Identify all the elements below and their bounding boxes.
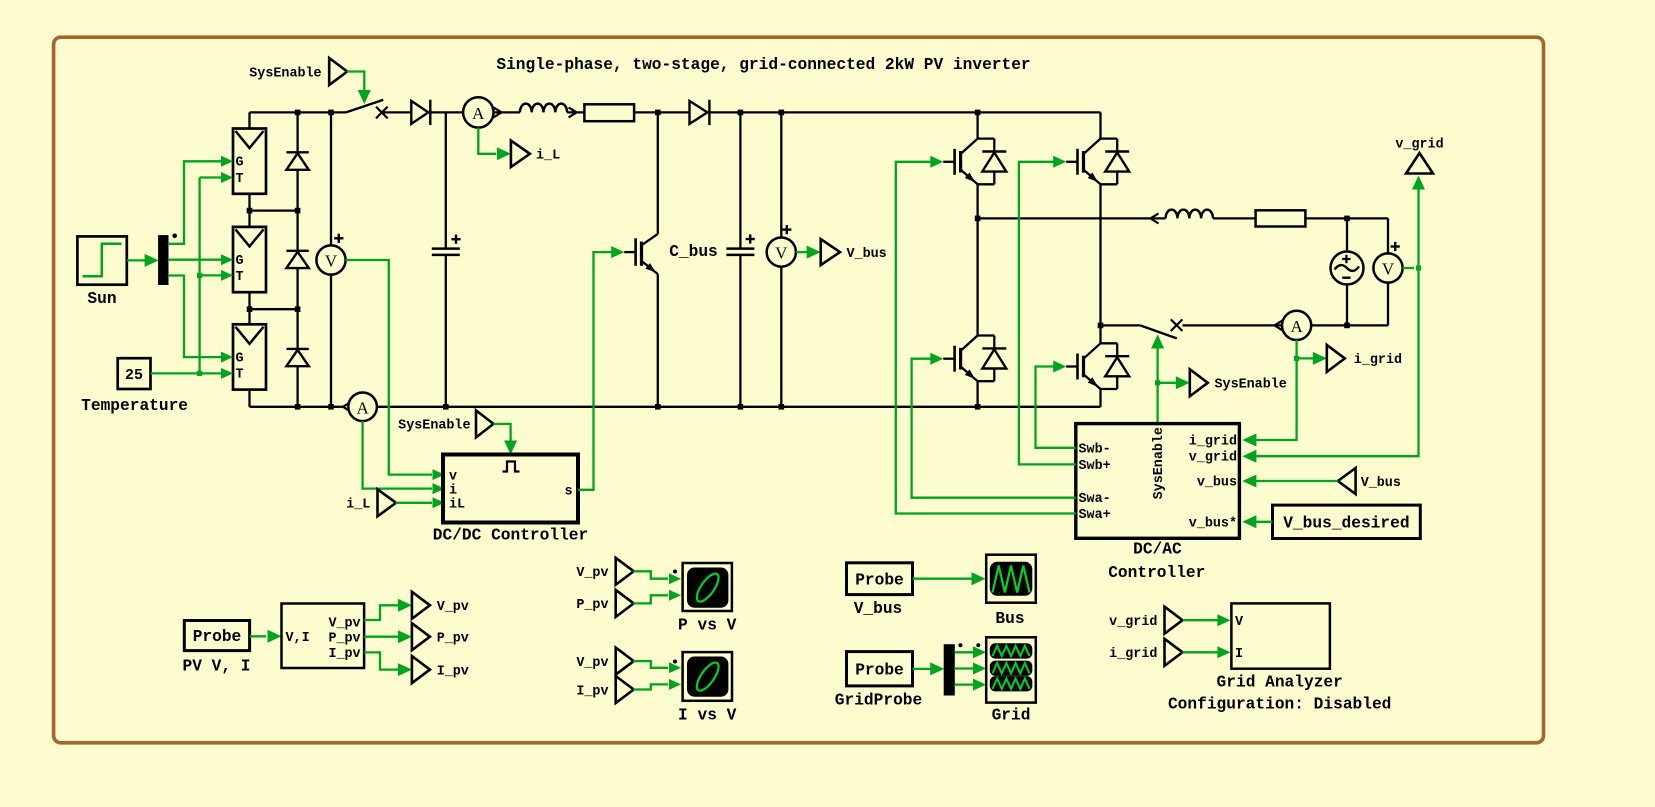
svg-text:Configuration: Disabled: Configuration: Disabled — [1168, 696, 1391, 714]
svg-text:v_grid: v_grid — [1189, 451, 1237, 466]
tag SysEnable (source, top) — [249, 58, 347, 85]
scope P vs V — [678, 563, 737, 634]
voltmeter V2 (V_bus) — [767, 225, 796, 267]
wire C_bus top — [739, 112, 741, 248]
svg-text:A: A — [1290, 317, 1303, 336]
svg-text:V: V — [1235, 615, 1244, 630]
wire v_grid node down to controller — [1242, 268, 1418, 463]
wire Q4 emitter — [976, 381, 978, 407]
svg-text:Swb-: Swb- — [1079, 442, 1111, 457]
wire D1-D2 — [296, 170, 298, 251]
svg-text:SysEnable: SysEnable — [1215, 378, 1287, 393]
wire DC/DC s output to Q1 gate — [578, 246, 624, 490]
tag SysEnable (sink, right) — [1190, 369, 1287, 396]
wire Swb- to Q5 gate — [1036, 361, 1076, 448]
wire Q1 emitter — [657, 274, 659, 407]
svg-text:G: G — [235, 254, 243, 269]
IGBT Q3 (H-bridge top-right) — [1066, 139, 1129, 185]
svg-text:v_grid: v_grid — [1109, 615, 1157, 630]
wire A3 to i_grid node — [1294, 340, 1299, 361]
tag V_pv (sink) — [412, 592, 469, 619]
tag i_grid (source, analyzer) — [1109, 639, 1182, 666]
wire M1 out1 to PV1 G — [168, 156, 233, 244]
wire PV2-PV3 — [247, 292, 301, 324]
probe GridProbe — [835, 652, 922, 710]
svg-text:Swa+: Swa+ — [1079, 508, 1111, 523]
svg-text:V_pv: V_pv — [328, 616, 360, 631]
svg-text:Probe: Probe — [855, 571, 904, 589]
svg-text:DC/DC Controller: DC/DC Controller — [433, 527, 588, 545]
wire Sun to mux M1 — [127, 254, 159, 267]
wire I_pv to I vs V scope — [633, 679, 681, 690]
tag v_grid (sink, up) — [1395, 138, 1443, 174]
wire V3 bottom — [1387, 283, 1389, 326]
wire demux to P_pv tag — [364, 630, 412, 643]
tag V_bus (source, right) — [1338, 468, 1401, 494]
subsystem DC/DC Controller — [433, 455, 588, 545]
title annotation — [496, 56, 1030, 74]
mux M1 — [159, 234, 177, 285]
capacitor C_bus — [669, 234, 755, 261]
svg-text:SysEnable: SysEnable — [398, 419, 470, 434]
svg-text:V_bus_desired: V_bus_desired — [1283, 514, 1409, 532]
svg-text:T: T — [235, 368, 243, 383]
series diode D4 — [411, 100, 463, 125]
svg-text:i_grid: i_grid — [1109, 647, 1157, 662]
scope Bus — [986, 555, 1036, 628]
PV module PV3 — [233, 324, 266, 389]
svg-text:i: i — [449, 483, 457, 498]
svg-text:v_grid: v_grid — [1395, 138, 1443, 153]
svg-text:G: G — [235, 156, 243, 171]
svg-text:I vs V: I vs V — [678, 706, 737, 724]
tag i_grid (sink) — [1327, 345, 1402, 372]
wire M2 out1 to Grid scope — [954, 646, 986, 658]
svg-text:T: T — [235, 270, 243, 285]
wire i_L tag to DC/DC iL input — [396, 497, 445, 508]
ammeter A3 (i_grid) — [1282, 311, 1311, 340]
wire SysEnable tag to DC/DC — [494, 424, 518, 455]
svg-text:Grid Analyzer: Grid Analyzer — [1217, 674, 1343, 692]
wire V1 to DC/DC v input — [346, 260, 445, 480]
svg-text:V: V — [325, 252, 338, 271]
scope I vs V — [678, 652, 737, 724]
AC source Vgrid — [1331, 252, 1364, 285]
svg-text:V_bus: V_bus — [854, 600, 903, 618]
inductor L2 (output) — [1166, 210, 1213, 219]
wire A1 to i_L tag — [478, 128, 511, 161]
svg-text:V: V — [1382, 260, 1395, 279]
wire V_bus_desired to controller — [1242, 515, 1272, 528]
tag V_pv (source, I vs V) — [576, 648, 633, 675]
wire V1 bottom — [330, 275, 332, 407]
IGBT Q4 (H-bridge bottom-left) — [943, 336, 1006, 382]
svg-text:P_pv: P_pv — [328, 632, 360, 647]
wire SysEnable branch to tag — [1158, 376, 1190, 389]
tag SysEnable (source, DC/DC) — [398, 410, 493, 437]
step source Sun — [77, 236, 126, 308]
wire DC/AC SysEnable to breaker S2 — [1151, 335, 1164, 424]
svg-text:P_pv: P_pv — [437, 632, 469, 647]
svg-text:A: A — [472, 104, 485, 123]
svg-text:I_pv: I_pv — [576, 684, 608, 699]
resistor R2 — [1256, 210, 1306, 226]
wire M1 out2 to PV2 G — [168, 254, 233, 265]
wire Temperature branch to PV2 T — [200, 270, 233, 281]
wire i_grid to analyzer — [1183, 646, 1231, 658]
wire PV3 to bottom rail — [250, 390, 340, 410]
wire Q3 emitter / leg B mid — [1098, 184, 1104, 328]
wire GridProbe to mux M2 — [913, 662, 945, 675]
constant block 25 (Temperature) — [81, 358, 188, 415]
wire probe to Bus scope — [913, 572, 986, 585]
wire diode column top — [296, 112, 298, 152]
svg-text:V,I: V,I — [286, 631, 310, 646]
wire R1 to D5 — [634, 110, 689, 116]
wire M1 out3 to PV3 G — [168, 276, 233, 363]
svg-text:Single-phase, two-stage, grid-: Single-phase, two-stage, grid-connected … — [496, 56, 1030, 74]
wire V_bus tag to controller — [1242, 475, 1338, 488]
svg-text:v_bus*: v_bus* — [1189, 517, 1237, 532]
wire Q2 emitter / leg A mid — [975, 184, 981, 221]
tag V_bus (sink, top) — [821, 239, 887, 265]
svg-text:v_bus: v_bus — [1197, 476, 1237, 491]
svg-text:PV V, I: PV V, I — [183, 657, 251, 675]
svg-text:SysEnable: SysEnable — [1152, 427, 1167, 499]
svg-text:T: T — [235, 172, 243, 187]
inductor L1 (boost) — [520, 104, 585, 118]
ammeter A2 (PV return) — [348, 393, 377, 422]
svg-text:I: I — [1235, 647, 1243, 662]
svg-text:C_bus: C_bus — [669, 243, 718, 261]
svg-text:I_pv: I_pv — [437, 664, 469, 679]
wire leg B lower — [1099, 325, 1101, 343]
breaker S1 — [346, 100, 411, 119]
svg-text:DC/AC: DC/AC — [1133, 541, 1182, 559]
wire Q3 collector — [1099, 112, 1101, 138]
PV module PV1 — [233, 129, 266, 194]
mux M2 (GridProbe) — [944, 643, 980, 695]
wire P_pv to P vs V scope — [633, 590, 681, 604]
svg-text:P vs V: P vs V — [678, 616, 737, 634]
svg-text:s: s — [564, 485, 572, 500]
svg-text:I_pv: I_pv — [328, 647, 360, 662]
IGBT Q5 (H-bridge bottom-right) — [1066, 343, 1129, 389]
wire top bus — [709, 110, 1100, 116]
wire i_grid node to controller — [1242, 358, 1296, 446]
wire V_pv to I vs V scope — [633, 660, 681, 674]
probe V_bus — [847, 563, 913, 618]
wire Q2 collector — [976, 112, 978, 138]
probe PV V, I — [183, 621, 251, 676]
voltmeter V3 (v_grid) — [1373, 242, 1402, 283]
wire v_grid node up to tag — [1412, 176, 1425, 269]
svg-text:A: A — [356, 398, 369, 417]
wire bridge mid to L2 — [978, 213, 1166, 223]
wire v_grid to analyzer — [1183, 614, 1231, 626]
tag I_pv (source, I vs V) — [576, 676, 633, 703]
wire PV string top — [250, 110, 347, 129]
svg-text:Grid: Grid — [992, 707, 1031, 725]
svg-text:Swa-: Swa- — [1079, 492, 1111, 507]
block Grid Analyzer — [1168, 603, 1391, 713]
svg-text:V_pv: V_pv — [437, 600, 469, 615]
svg-text:i_grid: i_grid — [1189, 435, 1237, 450]
wire A1 to inductor L1 — [494, 111, 520, 113]
svg-text:Probe: Probe — [855, 662, 904, 680]
boost diode D5 — [690, 100, 710, 125]
wire C1 top — [445, 112, 447, 248]
svg-text:V_bus: V_bus — [847, 247, 887, 262]
scope Grid — [986, 637, 1036, 724]
svg-text:Bus: Bus — [995, 610, 1024, 628]
tag i_L (sink, top) — [511, 141, 560, 168]
wire Swa+ to Q2 gate — [896, 156, 1076, 514]
constant V_bus_desired — [1273, 505, 1421, 538]
tag i_L (source, DC/DC) — [346, 489, 396, 516]
svg-text:i_L: i_L — [536, 149, 560, 164]
subsystem DC/AC Controller — [1076, 424, 1240, 582]
wire Q5 emitter — [1099, 389, 1101, 407]
capacitor C1 (input) — [432, 235, 461, 255]
svg-text:Temperature: Temperature — [81, 397, 188, 415]
IGBT Q2 (H-bridge top-left) — [943, 139, 1006, 185]
wire bottom rail — [339, 402, 1101, 412]
breaker S2 (grid disconnect) — [1101, 319, 1183, 338]
svg-text:V: V — [775, 244, 788, 263]
wire probe to demux — [250, 630, 282, 643]
wire V2 to V_bus tag — [796, 246, 821, 259]
svg-text:Probe: Probe — [193, 628, 242, 646]
svg-text:V_pv: V_pv — [576, 656, 608, 671]
wire demux to V_pv tag — [364, 599, 412, 620]
wire Temperature to PV3 T — [151, 368, 234, 379]
wire V3 to v_grid node — [1403, 265, 1422, 270]
wire Swb+ to Q3 gate — [1019, 156, 1076, 465]
tag v_grid (source, analyzer) — [1109, 607, 1182, 634]
wire V2 top — [780, 112, 782, 237]
wire SysEnable to breaker S1 — [347, 72, 371, 105]
bypass diode D1 — [286, 152, 308, 170]
wire V_pv to P vs V scope — [633, 570, 681, 585]
wire L2 to R2 — [1213, 217, 1256, 219]
svg-text:V_pv: V_pv — [576, 566, 608, 581]
tag P_pv (sink) — [412, 623, 469, 650]
wire C1 bottom — [445, 255, 447, 407]
svg-text:P_pv: P_pv — [576, 598, 608, 613]
wire leg A lower — [976, 218, 978, 335]
wire AC source bottom — [1346, 285, 1348, 326]
svg-text:i_L: i_L — [346, 498, 370, 513]
wire A2 to DC/DC i input — [363, 421, 445, 494]
voltmeter V1 — [316, 234, 345, 275]
wire PV1-PV2 — [247, 194, 301, 227]
tag V_pv (source, P vs V) — [576, 558, 633, 585]
wire grid bottom rail — [1183, 320, 1389, 330]
svg-text:Swb+: Swb+ — [1079, 459, 1111, 474]
ammeter A1 (i_L) — [463, 97, 501, 127]
wire C_bus bottom — [739, 255, 741, 407]
demux V,I — [282, 604, 365, 669]
wire V1 top — [330, 112, 332, 245]
svg-text:v: v — [449, 469, 457, 484]
wire demux to I_pv tag — [364, 652, 412, 676]
wire D3 to bottom rail — [296, 366, 298, 407]
svg-text:GridProbe: GridProbe — [835, 692, 922, 710]
wire M2 out2 to Grid scope — [954, 663, 986, 675]
wire Swa- to Q4 gate — [912, 353, 1076, 498]
svg-text:Sun: Sun — [87, 290, 116, 308]
wire V3 top — [1387, 218, 1389, 253]
wire Q1 collector — [657, 112, 659, 233]
wire R2 to grid top — [1305, 216, 1388, 222]
IGBT Q1 (boost) — [624, 234, 658, 274]
bypass diode D3 — [286, 349, 308, 366]
wire M2 out3 to Grid scope — [954, 679, 986, 691]
tag I_pv (sink) — [412, 656, 469, 683]
svg-text:Controller: Controller — [1108, 564, 1205, 582]
wire AC source top — [1346, 218, 1348, 251]
wire V2 bottom — [780, 267, 782, 407]
svg-text:i_grid: i_grid — [1354, 353, 1402, 368]
svg-text:25: 25 — [125, 367, 143, 384]
svg-text:SysEnable: SysEnable — [249, 66, 321, 81]
wire i_grid node to tag — [1297, 352, 1327, 365]
svg-text:G: G — [235, 351, 243, 366]
wire D2-D3 — [296, 268, 298, 349]
wire Temperature riser to PV1 T — [197, 172, 233, 373]
svg-text:iL: iL — [449, 498, 465, 513]
PV module PV2 — [233, 227, 266, 292]
tag P_pv (source, P vs V) — [576, 590, 633, 617]
svg-text:V_bus: V_bus — [1361, 476, 1401, 491]
resistor R1 — [584, 104, 634, 121]
bypass diode D2 — [286, 251, 308, 268]
